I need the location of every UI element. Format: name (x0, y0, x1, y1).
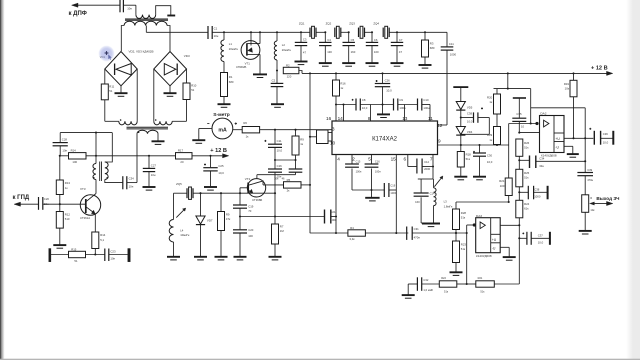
svg-text:10мкГн: 10мкГн (180, 233, 190, 237)
svg-text:L4: L4 (180, 228, 184, 232)
svg-text:+ 12 В: + 12 В (210, 148, 227, 154)
svg-text:C26: C26 (385, 79, 391, 83)
svg-text:10н: 10н (62, 149, 67, 153)
svg-text:160: 160 (351, 50, 356, 54)
svg-text:R17: R17 (178, 148, 184, 152)
svg-text:R2: R2 (286, 63, 290, 67)
svg-text:R1: R1 (229, 75, 233, 79)
svg-text:1000: 1000 (390, 191, 396, 195)
svg-text:КТ361А: КТ361А (80, 216, 90, 220)
svg-text:470н: 470н (414, 235, 421, 239)
svg-text:100: 100 (374, 50, 379, 54)
svg-text:К140УД608: К140УД608 (476, 254, 492, 258)
svg-text:S-метр: S-метр (213, 112, 230, 118)
svg-text:К174ХА2: К174ХА2 (372, 137, 398, 143)
svg-text:L1: L1 (229, 42, 233, 46)
svg-text:14: 14 (338, 116, 344, 121)
svg-text:15: 15 (391, 156, 397, 161)
svg-text:510: 510 (65, 217, 70, 221)
svg-text:VD3: VD3 (184, 54, 190, 58)
svg-text:L3: L3 (444, 200, 448, 204)
svg-text:13: 13 (402, 116, 408, 121)
svg-text:7: 7 (430, 156, 433, 161)
svg-text:R18: R18 (466, 152, 472, 156)
svg-text:R14: R14 (100, 233, 106, 237)
svg-text:R7: R7 (280, 224, 284, 228)
svg-text:DA3: DA3 (476, 214, 482, 218)
svg-text:VD4: VD4 (467, 130, 473, 134)
svg-text:12: 12 (437, 123, 443, 128)
svg-text:20мкГн: 20мкГн (282, 48, 292, 52)
svg-text:3,3к: 3,3к (349, 237, 355, 241)
svg-text:C19: C19 (390, 184, 395, 188)
svg-text:R3: R3 (430, 41, 434, 45)
svg-text:КП302Б: КП302Б (236, 65, 246, 69)
svg-text:5,1: 5,1 (100, 238, 104, 242)
svg-text:R4: R4 (350, 226, 354, 230)
svg-text:1000: 1000 (450, 52, 457, 56)
svg-text:R22: R22 (441, 276, 446, 280)
svg-text:51: 51 (74, 259, 78, 263)
svg-text:5: 5 (368, 156, 371, 161)
svg-text:10н: 10н (214, 34, 219, 38)
svg-text:C12: C12 (424, 160, 429, 164)
svg-text:10н: 10н (129, 184, 134, 188)
svg-text:R21: R21 (499, 179, 505, 183)
svg-text:680: 680 (430, 46, 435, 50)
svg-text:C1: C1 (214, 26, 218, 30)
svg-text:10н: 10н (274, 177, 279, 181)
svg-text:R9: R9 (226, 212, 230, 216)
svg-text:C25: C25 (218, 164, 224, 168)
svg-text:160: 160 (415, 200, 420, 204)
svg-text:+U: +U (492, 238, 497, 242)
svg-text:C9: C9 (399, 98, 403, 102)
svg-text:47: 47 (399, 50, 403, 54)
svg-text:mA: mA (218, 128, 227, 134)
svg-text:C5: C5 (351, 38, 355, 42)
svg-text:20: 20 (180, 160, 184, 164)
svg-text:C23: C23 (110, 250, 116, 254)
svg-text:C34: C34 (129, 177, 135, 181)
svg-text:47: 47 (303, 50, 307, 54)
svg-text:51к: 51к (466, 157, 471, 161)
svg-text:C21: C21 (330, 210, 336, 214)
svg-text:DA2: DA2 (540, 112, 546, 116)
svg-text:R: R (590, 197, 592, 200)
svg-text:C10: C10 (423, 98, 429, 102)
svg-text:10н: 10н (127, 7, 132, 11)
svg-text:R26: R26 (524, 141, 530, 145)
svg-text:R15: R15 (71, 248, 77, 252)
svg-text:R19: R19 (564, 82, 570, 86)
svg-text:100: 100 (500, 184, 505, 188)
svg-text:16: 16 (326, 116, 332, 121)
svg-text:R20: R20 (487, 96, 493, 100)
svg-text:4: 4 (337, 156, 340, 161)
svg-text:2000: 2000 (424, 167, 430, 171)
svg-text:C16: C16 (375, 160, 380, 164)
svg-text:R25: R25 (524, 171, 530, 175)
svg-text:VT3: VT3 (80, 187, 86, 191)
svg-text:к ГПД: к ГПД (13, 195, 30, 201)
svg-text:10,0: 10,0 (467, 119, 473, 123)
svg-text:ZQ4: ZQ4 (373, 22, 379, 26)
svg-text:-U: -U (492, 246, 496, 250)
svg-text:L2: L2 (282, 43, 286, 47)
svg-text:10,0: 10,0 (362, 106, 368, 110)
svg-text:100: 100 (248, 234, 253, 238)
svg-text:1М: 1М (280, 229, 285, 233)
svg-text:R13: R13 (65, 181, 71, 185)
svg-text:КТ368Б: КТ368Б (252, 198, 262, 202)
svg-text:C16: C16 (277, 164, 283, 168)
svg-text:R28: R28 (461, 211, 467, 215)
svg-text:VT2: VT2 (245, 177, 251, 181)
svg-text:680: 680 (229, 80, 234, 84)
svg-text:C6: C6 (374, 38, 378, 42)
svg-text:120: 120 (287, 74, 292, 78)
svg-text:8: 8 (368, 116, 371, 121)
svg-text:51к: 51к (524, 146, 529, 150)
svg-text:R21: R21 (478, 276, 483, 280)
svg-text:3: 3 (332, 127, 335, 133)
svg-text:33н: 33н (539, 164, 544, 168)
svg-text:1000: 1000 (534, 195, 541, 199)
svg-text:к ДПФ: к ДПФ (69, 11, 87, 17)
svg-text:R14: R14 (71, 148, 77, 152)
svg-text:ZQ5: ZQ5 (176, 182, 182, 186)
svg-text:+ 12 В: + 12 В (591, 65, 608, 71)
svg-text:R24: R24 (524, 202, 530, 206)
svg-text:C15: C15 (356, 160, 361, 164)
svg-text:R5: R5 (287, 178, 291, 182)
svg-text:20мкГн: 20мкГн (229, 47, 239, 51)
svg-text:10,0: 10,0 (538, 240, 544, 244)
svg-text:C39: C39 (587, 168, 592, 172)
svg-text:R6: R6 (243, 121, 247, 125)
svg-text:11: 11 (428, 116, 433, 121)
svg-text:VD7: VD7 (207, 218, 213, 222)
svg-text:10,0: 10,0 (603, 141, 609, 145)
svg-text:C3: C3 (303, 38, 307, 42)
svg-text:51: 51 (191, 88, 195, 92)
svg-text:R16: R16 (340, 81, 346, 85)
svg-text:10,0: 10,0 (386, 89, 392, 93)
svg-text:C36: C36 (603, 132, 609, 136)
svg-text:47к: 47к (226, 217, 231, 221)
svg-text:61к: 61к (524, 207, 529, 211)
svg-text:10н: 10н (151, 173, 156, 177)
svg-text:C8: C8 (362, 98, 366, 102)
svg-text:100н: 100н (399, 106, 406, 110)
svg-text:10,0: 10,0 (487, 160, 493, 164)
svg-text:100н: 100н (423, 106, 430, 110)
svg-text:51к: 51к (524, 176, 529, 180)
svg-text:1,0 мкФ: 1,0 мкФ (423, 288, 433, 292)
svg-text:100: 100 (72, 160, 77, 164)
svg-text:C20: C20 (44, 197, 50, 201)
svg-text:9: 9 (438, 139, 441, 144)
svg-text:VD2, VD3 КД402В: VD2, VD3 КД402В (129, 49, 154, 53)
svg-text:VD5: VD5 (467, 106, 473, 110)
svg-text:10,0: 10,0 (218, 171, 224, 175)
svg-text:C11: C11 (277, 139, 282, 143)
svg-text:R23: R23 (461, 242, 467, 246)
svg-text:R9: R9 (300, 137, 304, 141)
svg-text:C32: C32 (423, 278, 428, 282)
svg-text:C19: C19 (248, 204, 254, 208)
svg-text:130: 130 (327, 50, 332, 54)
svg-text:70: 70 (248, 209, 252, 213)
svg-text:C31: C31 (414, 227, 420, 231)
svg-text:Выход ЗЧ: Выход ЗЧ (596, 196, 619, 201)
svg-text:51к: 51к (461, 247, 466, 251)
svg-text:C38: C38 (467, 111, 473, 115)
svg-text:C35: C35 (516, 112, 522, 116)
svg-text:ZQ1: ZQ1 (299, 22, 305, 26)
svg-text:C28: C28 (62, 138, 68, 142)
svg-text:R29: R29 (487, 133, 493, 137)
svg-text:C4: C4 (327, 38, 331, 42)
svg-text:1,8мГн: 1,8мГн (444, 204, 453, 208)
svg-text:10: 10 (521, 124, 525, 128)
svg-text:C38: C38 (534, 187, 540, 191)
svg-text:+U: +U (555, 137, 560, 141)
svg-text:C37: C37 (538, 234, 544, 238)
svg-text:ZQ3: ZQ3 (349, 22, 355, 26)
svg-text:C30: C30 (487, 153, 493, 157)
svg-text:51: 51 (109, 89, 113, 93)
svg-text:C34: C34 (539, 157, 545, 161)
svg-text:R12: R12 (65, 212, 71, 216)
svg-text:100н: 100н (356, 170, 362, 174)
svg-text:470н: 470н (587, 178, 593, 182)
svg-text:C20: C20 (248, 228, 254, 232)
svg-text:100н: 100н (375, 170, 381, 174)
svg-text:C7: C7 (399, 38, 403, 42)
svg-text:-U: -U (555, 146, 559, 150)
svg-text:6: 6 (403, 156, 406, 161)
svg-text:C2: C2 (272, 79, 276, 83)
svg-text:10н: 10н (110, 257, 115, 261)
svg-text:ZQ2: ZQ2 (326, 22, 332, 26)
svg-text:51к: 51к (461, 216, 466, 220)
svg-text:C11: C11 (449, 42, 454, 46)
svg-text:C27: C27 (151, 163, 157, 167)
svg-text:10,0: 10,0 (277, 148, 283, 152)
